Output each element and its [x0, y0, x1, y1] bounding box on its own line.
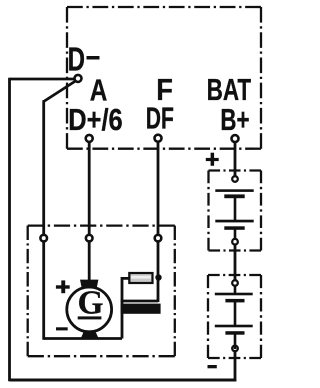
- wire: DF vertical to field winding: [157, 139, 160, 303]
- wire: battery group interconnect: [234, 242, 237, 283]
- battery cell 3 positive plate: [215, 293, 253, 296]
- battery cell link group1: [234, 197, 237, 221]
- battery stem group2 top: [234, 285, 237, 294]
- battery cell group 2 box (dash-dot): [208, 275, 261, 358]
- battery cell 1 negative plate: [224, 194, 244, 198]
- generator terminal (field): [155, 235, 162, 242]
- generator terminal (armature): [86, 235, 93, 242]
- battery cell 3 negative plate: [225, 299, 244, 303]
- generator plus sign: [56, 280, 70, 293]
- svg-text:D+/6: D+/6: [68, 102, 122, 137]
- field pole bar: [121, 304, 161, 314]
- battery cell 4 positive plate: [215, 325, 253, 328]
- label D-: [68, 42, 100, 79]
- field winding resistor body: [129, 273, 152, 283]
- generator bottom brush: [81, 331, 99, 339]
- battery minus sign: [208, 365, 217, 368]
- battery cell link group2: [234, 302, 237, 327]
- wire: diagonal from D- terminal: [44, 81, 76, 102]
- generator minus sign: [56, 327, 68, 330]
- wire: D- terminal to outer left: [10, 78, 76, 81]
- wire: outer left vertical: [8, 78, 11, 382]
- terminal A / D+/6: [86, 135, 93, 142]
- terminal BAT / B+: [232, 135, 239, 142]
- battery cell 1 positive plate: [215, 189, 253, 192]
- wire: D+/6 vertical to plus brush: [88, 139, 91, 282]
- wire: B+ vertical to battery plus: [234, 139, 237, 180]
- terminal D-: [75, 75, 82, 82]
- battery terminal top of group 1: [232, 176, 238, 182]
- battery cell 2 negative plate: [224, 226, 244, 230]
- terminal F / DF: [155, 135, 162, 142]
- wire: battery negative riser: [234, 349, 237, 381]
- battery terminal top of group 2: [232, 280, 238, 286]
- battery cell 2 positive plate: [215, 220, 253, 223]
- svg-text:G: G: [78, 284, 104, 321]
- battery plus sign: [206, 153, 219, 166]
- wire: generator bottom bus: [44, 337, 122, 340]
- wire: outer bottom horizontal: [10, 379, 237, 382]
- generator top brush: [80, 280, 98, 289]
- generator terminal (minus wire): [40, 235, 47, 242]
- generator letter underline: [78, 316, 102, 319]
- svg-text:B+: B+: [220, 102, 249, 136]
- battery terminal bottom of group 1: [232, 239, 238, 245]
- battery terminal bottom of group 2: [232, 346, 238, 352]
- battery cell group 1 box (dash-dot): [209, 171, 262, 251]
- svg-text:D: D: [68, 42, 85, 79]
- regulator housing box (dash-dot): [67, 7, 261, 149]
- svg-text:DF: DF: [146, 101, 174, 136]
- wire: field winding left lead: [122, 278, 130, 338]
- battery cell 4 negative plate: [225, 331, 244, 335]
- generator G circle: [67, 287, 112, 332]
- battery stem group1 bottom: [234, 228, 237, 239]
- battery stem group2 bottom: [234, 333, 237, 349]
- junction dot DF/field: [155, 274, 161, 280]
- wire: vertical to generator minus brush terminal: [42, 100, 45, 339]
- generator housing box (dash-dot): [28, 226, 175, 357]
- field winding resistor highlight stripe: [131, 276, 151, 279]
- wire: field winding bottom link: [121, 300, 158, 303]
